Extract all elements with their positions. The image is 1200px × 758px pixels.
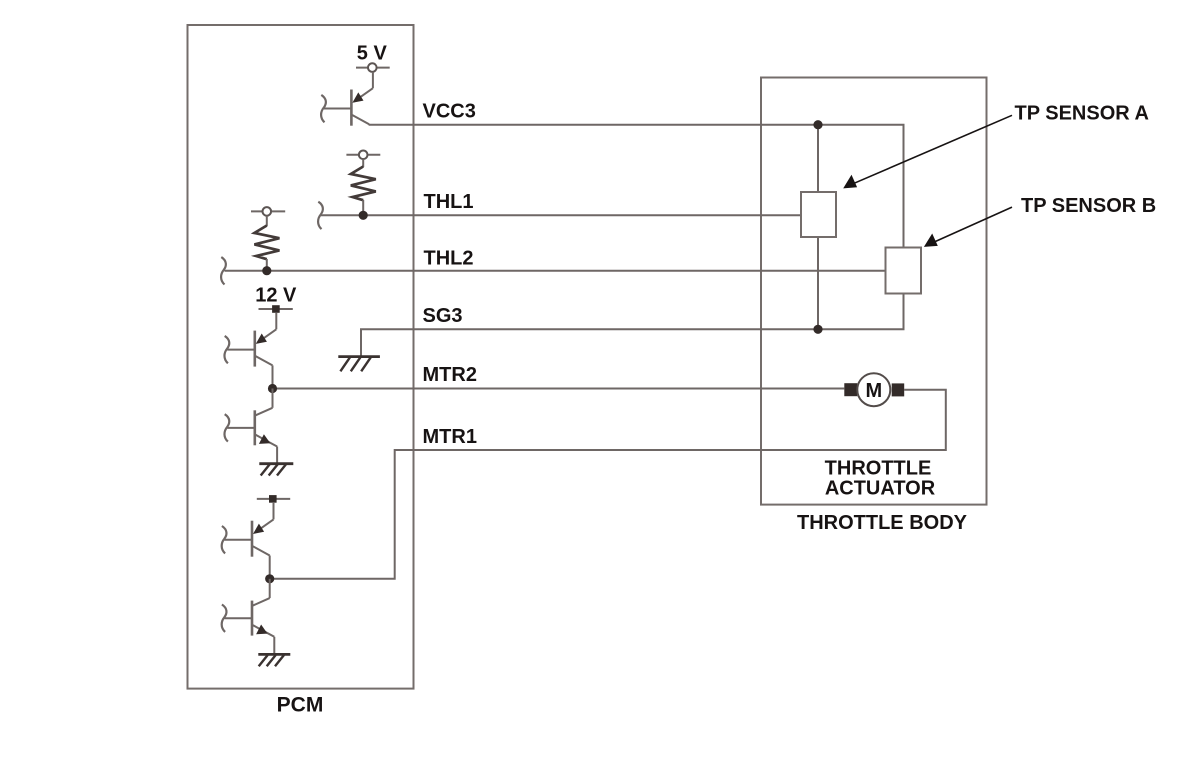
svg-text:VCC3: VCC3 [423, 100, 476, 122]
ground (Q5 emitter) [258, 654, 290, 666]
ground (SG3) [338, 357, 380, 372]
svg-text:M: M [865, 380, 882, 402]
svg-text:THL2: THL2 [424, 248, 474, 270]
svg-text:TP SENSOR B: TP SENSOR B [1021, 195, 1156, 217]
TP sensor A box [801, 192, 836, 237]
svg-text:ACTUATOR: ACTUATOR [825, 477, 936, 499]
wire SG3 [361, 294, 904, 357]
node junction dot SG3/TB [813, 325, 822, 334]
5 V terminal [356, 67, 390, 69]
node junction dot MTR2 [268, 384, 277, 393]
THROTTLE BODY box [761, 78, 987, 505]
node: sensor bus vertical (VCC3 to SG3 through TP sensor A) [817, 125, 819, 330]
svg-text:TP SENSOR A: TP SENSOR A [1015, 103, 1149, 125]
wire THL2 [225, 270, 886, 272]
break (base Q4) [222, 526, 227, 553]
svg-text:THROTTLE: THROTTLE [825, 458, 932, 480]
break (base Q3) [224, 414, 229, 441]
break (THL2 line) [221, 257, 226, 284]
transistor Q1 (PNP, VCC3 supply) [324, 72, 373, 126]
wire MTR2 [273, 388, 845, 390]
node junction dot THL2 [262, 266, 271, 275]
wire MTR1 [270, 390, 946, 579]
node junction dot MTR1 [265, 574, 274, 583]
resistor R2 (THL2 pull-up) [251, 210, 285, 212]
svg-text:MTR1: MTR1 [423, 426, 477, 448]
arrow to TP sensor B [932, 207, 1012, 243]
svg-text:MTR2: MTR2 [423, 364, 477, 386]
node junction dot VCC3/TB [813, 120, 822, 129]
break (base Q5) [222, 605, 227, 632]
svg-text:12 V: 12 V [255, 284, 297, 306]
TP sensor B box [886, 248, 922, 294]
break (base Q1) [321, 95, 326, 122]
PCM box [188, 25, 414, 689]
svg-text:PCM: PCM [277, 693, 324, 716]
motor M [844, 383, 857, 396]
svg-text:5 V: 5 V [357, 43, 388, 65]
wire THL1 [321, 214, 802, 216]
wire VCC3 [369, 125, 904, 248]
break (base Q2) [224, 336, 229, 363]
svg-text:SG3: SG3 [423, 305, 463, 327]
transistor Q5 (NPN, MTR1 low side) [225, 579, 275, 654]
transistor Q3 (NPN, MTR2 low side) [227, 389, 277, 464]
svg-text:THROTTLE BODY: THROTTLE BODY [797, 512, 968, 534]
ground (Q3 emitter) [259, 464, 293, 476]
resistor R1 (THL1 pull-up) [346, 154, 380, 156]
12 V terminal (second, unlabeled) [257, 498, 290, 500]
node junction dot THL1 [359, 211, 368, 220]
svg-text:THL1: THL1 [424, 191, 474, 213]
transistor Q2 (PNP, MTR2 high side) [227, 313, 276, 389]
break (THL1 line) [318, 202, 323, 229]
arrow to TP sensor A [852, 115, 1012, 184]
transistor Q4 (PNP, MTR1 high side) [225, 503, 274, 579]
